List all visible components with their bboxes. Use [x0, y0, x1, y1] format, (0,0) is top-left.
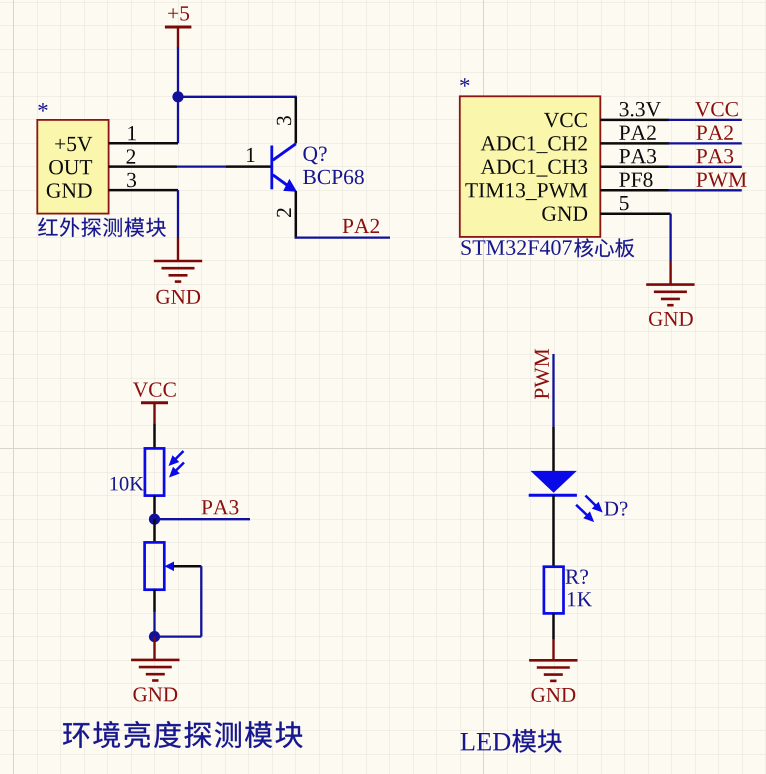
pin name VCC [544, 113, 587, 128]
net label PWM [696, 173, 746, 187]
ground symbol module 4 [529, 659, 577, 662]
power symbol +5 [165, 26, 192, 29]
pin wire PF8 [600, 189, 669, 192]
caption 红外探测模块 [38, 218, 57, 236]
ground stem module 3 [153, 637, 155, 660]
wire PWM [552, 354, 554, 427]
net label PA3 [696, 149, 733, 163]
wire OUT to base [177, 165, 226, 167]
pin wire pot bottom [153, 590, 156, 612]
wire wiper loop [200, 566, 202, 636]
transistor Q? base pin wire [226, 165, 271, 168]
pin 1 wire [109, 142, 178, 145]
LED light arrow 1 [585, 496, 596, 507]
collector pin wire [295, 97, 298, 144]
potentiometer RP? body [145, 542, 165, 589]
ground stem module 1 [177, 238, 179, 261]
pin name GND [542, 206, 587, 220]
pin wire R to node PA3 [153, 496, 156, 520]
pin name ADC1_CH2 [481, 136, 587, 153]
photoresistor R? body [145, 448, 164, 495]
wire +5 node to collector [178, 96, 297, 98]
ground label GND module 1 [156, 290, 200, 304]
module U? yellow box 红外探测模块 [37, 120, 108, 214]
net label VCC [695, 102, 738, 117]
pin 3 number [127, 173, 136, 187]
wire pot to gnd node [153, 611, 155, 637]
net label PA2 (transistor) [343, 219, 379, 233]
net wire PWM [668, 189, 742, 191]
photoresistor light arrow 1 [175, 451, 184, 460]
pin wire PA3 [600, 166, 669, 169]
ground symbol module 3 [131, 659, 179, 662]
pin name ADC1_CH3 [481, 160, 587, 177]
emitter pin wire [295, 191, 298, 239]
ground stem module 4 [552, 640, 554, 661]
pin 2 number [127, 149, 136, 163]
designator R? [566, 569, 588, 584]
pin wire anode [552, 427, 555, 472]
pin wire R to gnd [552, 613, 555, 639]
junction dot node PA3 [149, 514, 160, 525]
ground stem module 2 [669, 262, 671, 285]
wire GND pin down [177, 190, 179, 238]
ground symbol module 2 [646, 283, 694, 286]
resistor R? body [544, 567, 564, 614]
caption LED模块 [461, 733, 511, 750]
value BCP68 [303, 170, 364, 185]
asterisk marker module 2 [460, 78, 469, 86]
photoresistor light arrow 2 [175, 463, 184, 472]
wire GND pin down module 2 [669, 214, 671, 262]
net wire PA3 [668, 166, 742, 168]
pin wire PA2 [600, 142, 669, 145]
net label PWM vertical [535, 349, 549, 399]
wire +5 vertical [177, 48, 179, 144]
caption STM32F407核心板 [461, 240, 571, 255]
transistor Q? base bar [270, 146, 273, 190]
collector pin number 3 [277, 116, 291, 125]
junction dot node +5/collector [172, 91, 183, 102]
pin 2 wire [109, 165, 177, 168]
LED D? triangle [531, 471, 577, 493]
pin wire 3.3V [600, 119, 669, 122]
transistor Q? emitter slant with arrow [273, 175, 288, 186]
ground label GND module 2 [649, 312, 693, 326]
net wire PA2 [668, 142, 742, 144]
power symbol VCC [141, 401, 168, 404]
wire emitter to PA2 [295, 236, 390, 238]
caption 环境亮度探测模块 [63, 723, 89, 748]
LED D? cathode bar [529, 494, 577, 497]
ground label GND module 3 [133, 687, 177, 701]
designator D? [604, 502, 627, 516]
pin wire cathode to R [552, 495, 555, 567]
pin wire 5 (GND) [600, 212, 670, 215]
designator Q? [303, 147, 326, 165]
value 10K [111, 477, 144, 491]
pin name OUT [49, 160, 92, 174]
LED light arrow 2 [576, 505, 588, 516]
junction dot gnd node [149, 631, 160, 642]
pin name +5V [55, 137, 92, 151]
ground symbol module 1 [154, 260, 202, 263]
pin name GND [47, 183, 92, 197]
net wire VCC [668, 119, 742, 121]
asterisk marker module 1 [38, 103, 47, 111]
ground label GND module 4 [532, 688, 576, 702]
net label PA3 (divider) [202, 500, 239, 514]
wire node to potentiometer [153, 519, 156, 542]
potentiometer wiper arrow [165, 562, 175, 572]
pin 3 wire [109, 189, 178, 192]
pin 1 number [128, 126, 136, 140]
pin wire VCC to R [153, 423, 156, 448]
wire node PA3 [155, 518, 251, 520]
net label PA2 [696, 125, 732, 139]
pin name TIM13_PWM [465, 183, 587, 200]
emitter pin number 2 [277, 208, 291, 217]
module STM32 yellow box [460, 96, 601, 237]
value 1K [568, 592, 592, 606]
transistor Q? collector slant [273, 144, 296, 160]
